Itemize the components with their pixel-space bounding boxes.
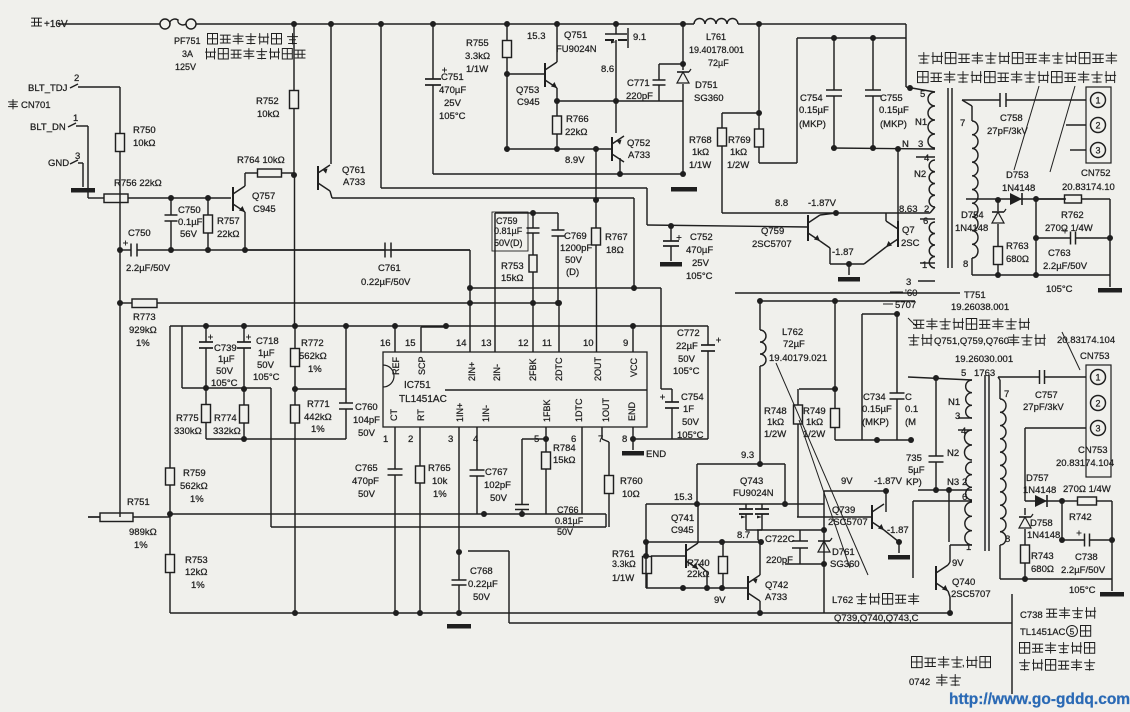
svg-text:10kΩ: 10kΩ xyxy=(257,109,279,120)
ground C752 xyxy=(660,262,682,267)
svg-text:L762: L762 xyxy=(832,595,853,606)
wire END pin8 xyxy=(630,427,636,450)
svg-text:R763: R763 xyxy=(1006,241,1029,252)
svg-text:C945: C945 xyxy=(253,204,276,215)
svg-text:D757: D757 xyxy=(1026,473,1049,484)
svg-text:1IN+: 1IN+ xyxy=(455,403,465,422)
svg-text:19.40178.001: 19.40178.001 xyxy=(689,45,744,55)
svg-text:19.26038.001: 19.26038.001 xyxy=(951,302,1009,313)
svg-text:50V: 50V xyxy=(473,592,491,603)
svg-text:1/1W: 1/1W xyxy=(466,64,488,75)
svg-text:T751: T751 xyxy=(964,290,986,301)
capacitor C761 xyxy=(245,243,470,289)
wire y101 node line xyxy=(557,100,683,102)
wire Q757 collector to R764 line xyxy=(244,173,246,186)
resistor R748 xyxy=(764,389,803,517)
note: L762 solder (CJK) xyxy=(832,594,919,625)
svg-text:332kΩ: 332kΩ xyxy=(213,426,241,437)
svg-text:1%: 1% xyxy=(433,489,447,500)
resistor R749 xyxy=(803,396,840,440)
svg-text:15.3: 15.3 xyxy=(527,31,546,42)
leader diagonal to CN752 b xyxy=(1050,86,1075,172)
svg-text:12: 12 xyxy=(518,338,529,349)
wire bottom bus y613 xyxy=(170,610,824,616)
svg-text:5: 5 xyxy=(1070,628,1075,637)
svg-text:72µF: 72µF xyxy=(708,58,729,68)
svg-text:(D): (D) xyxy=(566,267,579,278)
svg-text:C754: C754 xyxy=(681,392,704,403)
svg-text:Q739,Q740,Q743,C: Q739,Q740,Q743,C xyxy=(834,613,919,624)
svg-text:105°C: 105°C xyxy=(439,111,466,122)
svg-text:12kΩ: 12kΩ xyxy=(185,567,207,578)
svg-text:Q759: Q759 xyxy=(761,226,784,237)
wire top bus after L761 xyxy=(738,24,906,87)
wire x295 down to Vcc bus xyxy=(294,175,296,326)
svg-text:C757: C757 xyxy=(1035,390,1058,401)
resistor R775 xyxy=(174,388,211,439)
svg-text:5µF: 5µF xyxy=(908,465,925,476)
svg-text:105°C: 105°C xyxy=(1069,585,1096,596)
svg-text:2OUT: 2OUT xyxy=(593,356,603,381)
resistor R784 xyxy=(542,443,576,514)
capacitor C751 electrolytic xyxy=(378,21,466,188)
transistor Q760 xyxy=(864,213,920,264)
svg-text:1%: 1% xyxy=(134,540,148,551)
svg-text:105°C: 105°C xyxy=(1046,284,1073,295)
svg-text:C738: C738 xyxy=(1075,552,1098,563)
svg-text:TL1451AC: TL1451AC xyxy=(1020,627,1066,638)
transformer T751 core xyxy=(948,88,952,268)
svg-text:1kΩ: 1kΩ xyxy=(806,417,823,428)
svg-text:8.63: 8.63 xyxy=(899,204,918,215)
svg-text:1200pF: 1200pF xyxy=(560,243,592,254)
svg-text:CN701: CN701 xyxy=(21,100,51,111)
svg-text:105°C: 105°C xyxy=(686,271,713,282)
svg-text:FU9024N: FU9024N xyxy=(556,44,597,55)
svg-text:562kΩ: 562kΩ xyxy=(299,351,327,362)
svg-text:1N4148: 1N4148 xyxy=(1023,485,1056,496)
svg-text:KP): KP) xyxy=(906,477,922,488)
svg-text:R764 10kΩ: R764 10kΩ xyxy=(237,155,285,166)
wire 8.7 node and C722C D761 xyxy=(737,491,827,613)
wire pin11 stub xyxy=(558,303,560,352)
svg-text:8: 8 xyxy=(622,434,627,445)
svg-text:25V: 25V xyxy=(692,258,710,269)
svg-text:105°C: 105°C xyxy=(673,366,700,377)
transistor Q759 xyxy=(752,213,836,264)
svg-text:R766: R766 xyxy=(566,114,589,125)
svg-text:929kΩ: 929kΩ xyxy=(129,325,157,336)
capacitor C718 xyxy=(237,326,280,389)
connector CN752 xyxy=(1062,87,1115,193)
IC751 top pin numbers xyxy=(380,338,628,349)
svg-text:50V: 50V xyxy=(490,493,508,504)
note: peak voltage (CJK) xyxy=(909,657,991,689)
svg-text:1: 1 xyxy=(966,542,971,553)
resistor R751 xyxy=(88,497,173,551)
svg-text:0.22µF/50V: 0.22µF/50V xyxy=(361,277,411,288)
svg-text:3.3kΩ: 3.3kΩ xyxy=(465,51,490,62)
svg-text:2: 2 xyxy=(74,73,79,84)
svg-text:50V: 50V xyxy=(358,489,376,500)
node +16V input label xyxy=(32,18,68,30)
transistor Q761 PNP xyxy=(318,165,365,191)
svg-text:8.7: 8.7 xyxy=(737,530,750,541)
note: C738 leak (CJK 4 lines) xyxy=(1019,608,1095,671)
wire left column vertical xyxy=(117,198,123,517)
wire bottom right bus y579 xyxy=(1000,576,1112,591)
svg-text:Q743: Q743 xyxy=(740,476,763,487)
svg-text:R772: R772 xyxy=(301,338,324,349)
svg-text:PF751: PF751 xyxy=(174,36,201,46)
resistor R753 12k xyxy=(166,514,208,613)
wire 2.2uF node to C761 line xyxy=(168,247,470,253)
wire Q751 source down to Q752 collector xyxy=(613,50,619,133)
svg-text:1%: 1% xyxy=(190,494,204,505)
resistor R767 on 2OUT xyxy=(592,149,628,352)
svg-text:(MKP): (MKP) xyxy=(862,417,889,428)
svg-text:0.22µF: 0.22µF xyxy=(468,579,498,590)
svg-text:220pF: 220pF xyxy=(766,555,793,566)
wire emitters common node xyxy=(830,247,864,275)
wire pin6 stub xyxy=(581,427,583,514)
svg-text:1kΩ: 1kΩ xyxy=(767,417,784,428)
resistor R772 xyxy=(291,326,327,389)
resistor R743 xyxy=(1021,529,1054,579)
wire top +16V bus xyxy=(196,23,694,25)
svg-text:8: 8 xyxy=(1005,534,1010,545)
svg-text:1: 1 xyxy=(1095,95,1100,105)
wire CN753 pin3 to D757 branch xyxy=(1025,428,1086,501)
resistor R773 xyxy=(120,299,470,349)
svg-text:470µF: 470µF xyxy=(439,85,466,96)
ground Q759 Q760 emitters xyxy=(838,277,860,282)
leader diagonal to CN752 a xyxy=(1014,86,1039,170)
svg-text:11: 11 xyxy=(542,338,552,349)
wire left frame x170 xyxy=(169,326,171,468)
svg-text:10Ω: 10Ω xyxy=(622,489,640,500)
svg-text:BLT_TDJ: BLT_TDJ xyxy=(28,83,68,94)
wire y188 line from x381 xyxy=(381,188,647,225)
wire Q753 emitter node xyxy=(554,88,560,104)
svg-text:50V: 50V xyxy=(565,255,583,266)
wire CN752 pin3 stub xyxy=(1070,149,1086,151)
svg-text:A733: A733 xyxy=(628,150,650,161)
resistor R742 xyxy=(1059,484,1112,523)
note: transformer short (CJK line1) xyxy=(908,318,1030,329)
inductor L762 xyxy=(757,298,827,464)
svg-text:1: 1 xyxy=(1095,372,1100,382)
svg-text:102pF: 102pF xyxy=(484,480,511,491)
svg-text:C750: C750 xyxy=(128,228,151,239)
svg-text:3: 3 xyxy=(448,434,453,445)
svg-text:Q761: Q761 xyxy=(342,165,365,176)
svg-text:D753: D753 xyxy=(1006,170,1029,181)
svg-text:2.2µF/50V: 2.2µF/50V xyxy=(1061,565,1106,576)
svg-text:2: 2 xyxy=(408,434,413,445)
ground END xyxy=(622,449,666,460)
wire +16V to fuse xyxy=(58,23,160,25)
svg-text:BLT_DN: BLT_DN xyxy=(30,122,66,133)
capacitor C754 1F xyxy=(660,389,704,441)
svg-text:16: 16 xyxy=(380,338,391,349)
wire y440 line xyxy=(835,437,914,443)
IC751 bottom pin labels rotated xyxy=(389,397,637,422)
resistor R757 xyxy=(204,198,240,250)
svg-text:(MKP): (MKP) xyxy=(880,119,907,130)
transistor Q753 xyxy=(516,62,557,108)
capacitor C767 on pin4 xyxy=(459,427,511,552)
svg-text:C771: C771 xyxy=(627,78,650,89)
svg-text:1/1W: 1/1W xyxy=(689,160,711,171)
transistor Q742 PNP xyxy=(748,542,788,613)
wire C761 line y250 xyxy=(467,250,473,306)
capacitor C763 electrolytic xyxy=(1033,199,1113,295)
svg-text:R773: R773 xyxy=(133,312,156,323)
svg-text:C759: C759 xyxy=(496,216,518,226)
inductor L761 xyxy=(689,19,744,69)
resistor R769 xyxy=(722,110,797,171)
transistor Q741 xyxy=(651,504,707,588)
svg-text:SCP: SCP xyxy=(417,356,427,375)
svg-text:A733: A733 xyxy=(343,177,365,188)
svg-text:C945: C945 xyxy=(517,97,540,108)
svg-text:C945: C945 xyxy=(671,525,694,536)
svg-text:7: 7 xyxy=(1004,389,1009,400)
svg-text:C765: C765 xyxy=(355,463,378,474)
wire Q761 collector long line y200 xyxy=(330,191,634,288)
svg-text:10: 10 xyxy=(583,338,594,349)
svg-text:330kΩ: 330kΩ xyxy=(174,426,202,437)
svg-text:L761: L761 xyxy=(706,32,726,42)
svg-text:R771: R771 xyxy=(307,399,330,410)
leader diagonal CN753 xyxy=(1062,332,1080,370)
svg-text:Q751,Q759,Q760: Q751,Q759,Q760 xyxy=(934,336,1009,347)
capacitor C755 MKP xyxy=(865,38,909,148)
svg-text:R748: R748 xyxy=(764,406,787,417)
svg-text:-1.87: -1.87 xyxy=(887,525,909,536)
svg-text:0.15µF: 0.15µF xyxy=(879,105,909,116)
wire y213 line xyxy=(722,198,930,216)
svg-text:2SC5707: 2SC5707 xyxy=(951,589,991,600)
resistor R774 xyxy=(213,389,249,439)
svg-text:N: N xyxy=(902,139,909,150)
resistor R740 xyxy=(687,542,728,588)
svg-text:0.1µF: 0.1µF xyxy=(178,217,203,228)
svg-text:5: 5 xyxy=(961,368,966,379)
svg-text:C760: C760 xyxy=(355,402,378,413)
svg-text:3: 3 xyxy=(955,411,960,422)
capacitor C722C xyxy=(765,530,824,566)
svg-text:22kΩ: 22kΩ xyxy=(565,127,587,138)
svg-text:0.1: 0.1 xyxy=(905,404,918,415)
mosfet Q751 FU9024N xyxy=(556,21,646,55)
capacitor C772 xyxy=(673,326,721,439)
diode D761 SG360 zener xyxy=(818,538,860,570)
wire tap6 to Q740 base xyxy=(913,501,972,578)
diode D751 SG360 zener xyxy=(677,21,724,174)
wire drain line y504 xyxy=(643,501,824,588)
svg-text:0.81µF: 0.81µF xyxy=(555,516,584,526)
resistor R768 xyxy=(689,113,727,213)
wire bus y514 xyxy=(88,511,606,517)
svg-text:N2: N2 xyxy=(914,169,926,180)
svg-text:C738: C738 xyxy=(1020,610,1043,621)
connector CN753 xyxy=(1056,335,1115,477)
svg-text:3: 3 xyxy=(906,277,911,288)
transformer T751 labels xyxy=(883,288,1009,313)
svg-text:27pF/3kV: 27pF/3kV xyxy=(1023,402,1064,413)
svg-text:C769: C769 xyxy=(564,231,587,242)
svg-text:2: 2 xyxy=(1095,398,1100,408)
svg-text:125V: 125V xyxy=(175,62,196,72)
svg-text:R784: R784 xyxy=(553,443,576,454)
svg-text:22kΩ: 22kΩ xyxy=(217,229,239,240)
svg-text:C754: C754 xyxy=(800,93,823,104)
resistor R752 xyxy=(256,21,299,175)
svg-text:Q742: Q742 xyxy=(765,580,788,591)
svg-text:R760: R760 xyxy=(620,476,643,487)
svg-text:C751: C751 xyxy=(441,72,464,83)
wire Vcc bus y326 xyxy=(170,323,708,329)
resistor R766 xyxy=(553,101,589,149)
capacitor C768 xyxy=(452,549,510,623)
IC751 top pin labels rotated xyxy=(391,356,639,381)
wire pin16 stub xyxy=(394,326,396,352)
wire Q752 emitter to gnd line xyxy=(619,158,621,174)
svg-text:(MKP): (MKP) xyxy=(799,119,826,130)
svg-text:15: 15 xyxy=(405,338,416,349)
resistor R764 xyxy=(237,155,294,177)
resistor R756 xyxy=(88,178,171,203)
svg-text:72µF: 72µF xyxy=(783,339,805,350)
svg-text:22µF: 22µF xyxy=(676,341,698,352)
svg-text:8.8: 8.8 xyxy=(775,198,788,209)
wire Q761 base node xyxy=(291,172,297,178)
svg-text:RT: RT xyxy=(416,409,426,421)
svg-text:2SC5707: 2SC5707 xyxy=(828,517,868,528)
svg-text:R775: R775 xyxy=(176,413,199,424)
svg-text:1N4148: 1N4148 xyxy=(1027,530,1060,541)
wire tap2 line T763 xyxy=(918,487,972,493)
svg-text:N1: N1 xyxy=(948,397,960,408)
svg-text:C772: C772 xyxy=(677,328,700,339)
svg-text:15.3: 15.3 xyxy=(674,492,693,503)
svg-text:N3: N3 xyxy=(947,477,959,488)
svg-text:R753: R753 xyxy=(501,261,524,272)
wire tap3 line y148 xyxy=(831,139,935,152)
ground GND pin3 xyxy=(71,188,95,193)
svg-text:50V: 50V xyxy=(682,417,700,428)
IC751 bottom pin numbers xyxy=(383,434,627,445)
svg-text:R769: R769 xyxy=(728,135,751,146)
leader diagonal L762 a xyxy=(776,363,868,575)
capacitor C739 xyxy=(199,326,238,389)
svg-text:6: 6 xyxy=(923,216,928,227)
wire BLT_DN pin1 xyxy=(68,123,88,198)
svg-text:C761: C761 xyxy=(378,263,401,274)
note: connector caution (CJK line2) xyxy=(918,72,1116,83)
svg-text:50V(D): 50V(D) xyxy=(494,238,523,248)
svg-text:1%: 1% xyxy=(191,580,205,591)
svg-text:Q739: Q739 xyxy=(832,505,855,516)
svg-text:25V: 25V xyxy=(444,98,462,109)
wire R756 node to Q757 base xyxy=(168,195,231,201)
svg-text:R765: R765 xyxy=(428,463,451,474)
diode D757 xyxy=(1023,473,1062,507)
svg-text:105°C: 105°C xyxy=(253,372,280,383)
capacitor C758 xyxy=(962,93,1086,137)
svg-text:1/2W: 1/2W xyxy=(803,429,825,440)
svg-text:C750: C750 xyxy=(178,205,201,216)
svg-text:CN753: CN753 xyxy=(1078,445,1108,456)
svg-text:0.15µF: 0.15µF xyxy=(799,105,829,116)
resistor R755 xyxy=(465,21,546,75)
svg-text:10k: 10k xyxy=(432,476,448,487)
svg-text:442kΩ: 442kΩ xyxy=(304,412,332,423)
wire bus y288 xyxy=(470,285,661,389)
svg-text:0.81µF: 0.81µF xyxy=(494,226,523,236)
capacitor C735 MKP xyxy=(906,378,944,490)
svg-text:3: 3 xyxy=(918,139,923,150)
svg-text:56V: 56V xyxy=(180,229,198,240)
transformer T751 primary windings xyxy=(899,85,935,288)
svg-text:105°C: 105°C xyxy=(677,430,704,441)
wire BLT_TDJ pin2 xyxy=(70,84,120,88)
capacitor C757 xyxy=(998,370,1086,413)
wire pin9 Vcc stub xyxy=(632,326,634,352)
svg-text:22kΩ: 22kΩ xyxy=(687,569,709,580)
svg-text:REF: REF xyxy=(391,356,401,375)
svg-text:R774: R774 xyxy=(214,413,237,424)
svg-text:1µF: 1µF xyxy=(218,354,235,365)
svg-text:FU9024N: FU9024N xyxy=(733,488,774,499)
wire pin15 SCP up-over xyxy=(421,326,446,352)
svg-text:TL1451AC: TL1451AC xyxy=(399,394,447,405)
capacitor C760 xyxy=(339,326,380,439)
svg-text:9.3: 9.3 xyxy=(741,450,754,461)
svg-text:1IN-: 1IN- xyxy=(481,405,491,422)
capacitor C750 2.2uF/50V electrolytic xyxy=(120,228,171,274)
ground of y175 line xyxy=(671,187,697,192)
svg-text:CT: CT xyxy=(389,409,399,421)
svg-text:D761: D761 xyxy=(832,547,855,558)
wire node x835 from y301 xyxy=(799,301,838,396)
svg-text:2IN+: 2IN+ xyxy=(467,362,477,381)
svg-text:C768: C768 xyxy=(470,566,493,577)
capacitor C750 0.1uF xyxy=(165,198,203,250)
leader diagonal L762 b xyxy=(799,420,850,568)
transformer T763 secondary xyxy=(998,377,1010,579)
svg-text:9V: 9V xyxy=(714,595,726,606)
svg-text:1OUT: 1OUT xyxy=(601,397,611,422)
wire inner frame x797 xyxy=(797,35,906,163)
wire bus y303 right part xyxy=(470,302,558,304)
diode D758 zener xyxy=(1019,508,1060,541)
capacitor C734 MKP xyxy=(862,314,918,440)
svg-text:R756 22kΩ: R756 22kΩ xyxy=(114,178,162,189)
wire y491 node xyxy=(824,476,903,512)
wire y275 line to ground xyxy=(972,199,1110,287)
diode D754 zener xyxy=(955,199,1006,236)
svg-text:1/1W: 1/1W xyxy=(612,573,634,584)
wire bottom bus extension to Q740 xyxy=(824,612,950,614)
wire R755 to Q753 base and down xyxy=(504,71,544,152)
svg-text:3: 3 xyxy=(1095,145,1100,155)
svg-text:19.40179.021: 19.40179.021 xyxy=(769,353,827,364)
svg-text:8: 8 xyxy=(963,259,968,270)
svg-text:10kΩ: 10kΩ xyxy=(133,138,155,149)
